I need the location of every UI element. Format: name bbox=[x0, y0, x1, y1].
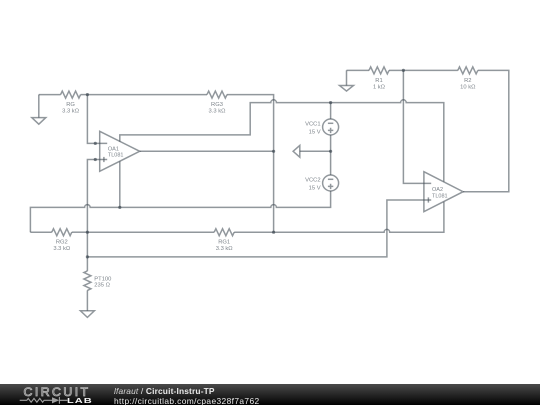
svg-text:15 V: 15 V bbox=[309, 185, 321, 191]
wire bbox=[87, 200, 431, 257]
resistor R2 bbox=[458, 67, 478, 90]
wire bbox=[87, 94, 207, 96]
svg-text:15 V: 15 V bbox=[309, 129, 321, 135]
wire bbox=[87, 160, 107, 271]
node bbox=[94, 158, 97, 161]
wire bbox=[274, 202, 444, 233]
ground GND2 bbox=[340, 70, 354, 91]
node bbox=[94, 142, 97, 145]
wire V+ rail bbox=[120, 100, 444, 182]
svg-text:TL081: TL081 bbox=[432, 194, 448, 200]
resistor RG bbox=[61, 91, 81, 114]
wire bbox=[119, 161, 121, 207]
wire bbox=[234, 231, 273, 233]
svg-text:VCC2: VCC2 bbox=[305, 178, 320, 184]
footer text bbox=[114, 386, 215, 396]
wire bbox=[389, 69, 403, 71]
resistor RG3 bbox=[207, 91, 227, 114]
svg-text:TL081: TL081 bbox=[108, 152, 124, 158]
wire bbox=[347, 69, 370, 71]
svg-text:R1: R1 bbox=[375, 78, 382, 84]
wire bbox=[87, 95, 107, 144]
wire bbox=[403, 70, 431, 183]
svg-text:10 kΩ: 10 kΩ bbox=[460, 84, 476, 90]
svg-text:OA2: OA2 bbox=[432, 187, 443, 193]
node bbox=[272, 231, 275, 234]
op-amp OA2 bbox=[424, 172, 463, 212]
ground GND1 bbox=[32, 95, 46, 125]
node bbox=[86, 93, 89, 96]
wire bbox=[403, 69, 457, 71]
resistor PT100 bbox=[84, 271, 111, 291]
svg-text:3.3 kΩ: 3.3 kΩ bbox=[62, 109, 80, 115]
svg-text:VCC1: VCC1 bbox=[305, 122, 320, 128]
wire bbox=[330, 135, 332, 151]
node bbox=[329, 101, 332, 104]
wire bbox=[227, 95, 274, 233]
svg-text:RG1: RG1 bbox=[218, 240, 230, 246]
op-amp OA1 bbox=[100, 131, 140, 171]
wire bbox=[39, 94, 61, 96]
svg-text:RG2: RG2 bbox=[56, 240, 68, 246]
resistor RG2 bbox=[52, 229, 72, 252]
svg-text:RG3: RG3 bbox=[211, 102, 223, 108]
resistor RG1 bbox=[214, 229, 234, 252]
wire bbox=[30, 231, 51, 233]
svg-text:PT100: PT100 bbox=[94, 277, 111, 283]
ground GND3 bbox=[80, 311, 94, 318]
voltage source VCC2 bbox=[305, 175, 338, 191]
svg-text:3.3 kΩ: 3.3 kΩ bbox=[216, 246, 234, 252]
voltage source VCC1 bbox=[305, 119, 338, 135]
node bbox=[272, 150, 275, 153]
node bbox=[402, 69, 405, 72]
node bbox=[86, 231, 89, 234]
wire bbox=[330, 151, 332, 175]
svg-text:RG: RG bbox=[66, 102, 75, 108]
svg-text:1 kΩ: 1 kΩ bbox=[373, 84, 386, 90]
node bbox=[86, 255, 89, 258]
wire bbox=[87, 231, 214, 233]
wire bbox=[72, 231, 88, 233]
node bbox=[118, 206, 121, 209]
svg-text:R2: R2 bbox=[464, 78, 471, 84]
wire bbox=[81, 94, 88, 96]
resistor R1 bbox=[369, 67, 389, 90]
wire VEE rail bbox=[30, 191, 330, 232]
footer bar bbox=[0, 384, 540, 405]
net flag bbox=[293, 145, 331, 157]
wire bbox=[463, 70, 509, 191]
wire bbox=[140, 150, 274, 152]
wire bbox=[330, 103, 332, 119]
svg-text:235 Ω: 235 Ω bbox=[94, 283, 110, 289]
node bbox=[329, 150, 332, 153]
CircuitLab logo bbox=[22, 385, 97, 398]
svg-text:3.3 kΩ: 3.3 kΩ bbox=[53, 246, 71, 252]
svg-text:3.3 kΩ: 3.3 kΩ bbox=[209, 109, 227, 115]
wire bbox=[86, 290, 88, 310]
